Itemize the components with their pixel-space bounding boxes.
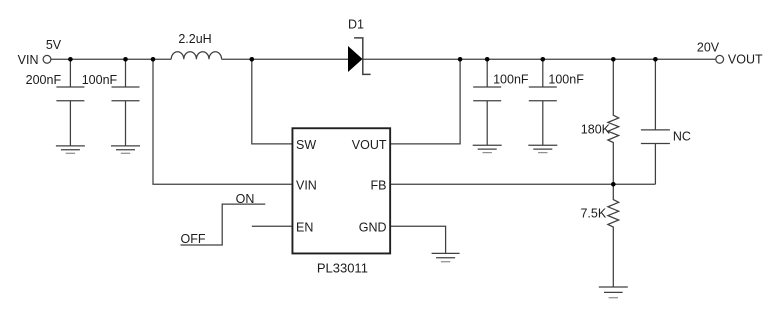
svg-text:NC: NC bbox=[673, 130, 691, 144]
svg-text:VOUT: VOUT bbox=[352, 138, 387, 152]
svg-text:VIN: VIN bbox=[18, 53, 39, 67]
svg-text:200nF: 200nF bbox=[26, 73, 62, 87]
svg-text:VIN: VIN bbox=[296, 179, 317, 193]
svg-text:100nF: 100nF bbox=[493, 73, 529, 87]
svg-text:VOUT: VOUT bbox=[728, 52, 763, 66]
svg-text:100nF: 100nF bbox=[548, 73, 584, 87]
svg-text:FB: FB bbox=[371, 179, 387, 193]
svg-text:EN: EN bbox=[296, 220, 313, 234]
svg-text:180K: 180K bbox=[581, 123, 611, 137]
svg-text:5V: 5V bbox=[46, 38, 62, 52]
svg-text:2.2uH: 2.2uH bbox=[178, 32, 211, 46]
svg-text:OFF: OFF bbox=[181, 232, 206, 246]
svg-text:7.5K: 7.5K bbox=[580, 206, 606, 220]
svg-text:SW: SW bbox=[296, 138, 316, 152]
svg-text:20V: 20V bbox=[697, 41, 720, 55]
svg-text:ON: ON bbox=[236, 192, 255, 206]
svg-text:GND: GND bbox=[359, 220, 387, 234]
svg-text:PL33011: PL33011 bbox=[317, 261, 368, 276]
svg-text:100nF: 100nF bbox=[82, 73, 118, 87]
svg-text:D1: D1 bbox=[348, 18, 364, 32]
